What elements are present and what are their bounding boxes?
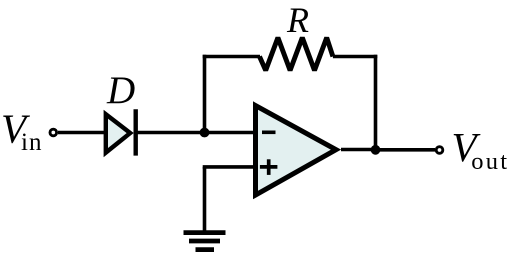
wire input to diode (58, 131, 105, 135)
ground (184, 233, 226, 250)
label V_in (1, 106, 42, 157)
op-amp non-inverting pin mark (plus) (260, 159, 278, 175)
svg-text:R: R (286, 0, 309, 40)
junction: output node (371, 145, 381, 155)
wire plus input down to ground (203, 167, 207, 232)
svg-text:D: D (106, 69, 135, 112)
output terminal (node V_out) (436, 147, 443, 154)
wire op-amp output (341, 148, 376, 152)
op-amp inverting pin mark (minus) (262, 131, 276, 135)
label V_out (452, 124, 510, 175)
wire node up to feedback rail (203, 55, 207, 133)
svg-text:out: out (471, 148, 509, 175)
junction: inverting input node (200, 128, 210, 138)
wire feedback rail right (333, 55, 377, 59)
op-amp U1 (256, 106, 337, 196)
wire feedback rail left (203, 55, 260, 59)
wire feedback down to output node (374, 55, 378, 150)
wire plus input left (203, 165, 256, 169)
diode D (106, 109, 136, 155)
svg-text:in: in (21, 129, 42, 156)
wire to output terminal (376, 148, 436, 152)
wire diode to inverting node (136, 131, 255, 135)
input terminal (node V_in) (50, 129, 57, 136)
resistor R (260, 38, 333, 71)
